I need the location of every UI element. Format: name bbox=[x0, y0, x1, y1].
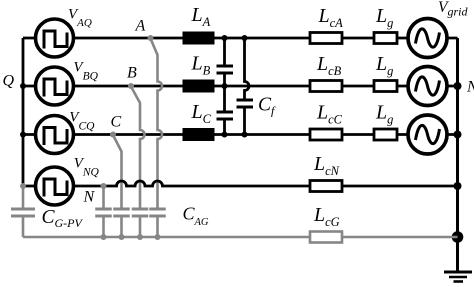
inductor L_g row C bbox=[374, 129, 397, 140]
inductor L_cC bbox=[310, 129, 342, 140]
source V_grid row A bbox=[408, 19, 447, 58]
junction dots C_f bbox=[222, 35, 248, 138]
junction dot right bus row N bbox=[454, 182, 462, 190]
ground bbox=[444, 272, 472, 282]
svg-text:C: C bbox=[111, 114, 122, 131]
wire row A segments bbox=[23, 37, 458, 40]
node Q junction dot row B bbox=[20, 83, 26, 89]
wire row C segments bbox=[23, 133, 458, 136]
svg-text:A: A bbox=[135, 17, 146, 34]
source V_AQ bbox=[36, 19, 74, 57]
inductor L_A bbox=[183, 32, 215, 45]
capacitor C_G-PV bbox=[11, 186, 35, 237]
capacitor C_AG 1 (N) bbox=[95, 208, 112, 218]
svg-text:Q: Q bbox=[3, 73, 15, 90]
wire row B segments bbox=[23, 85, 458, 88]
wire C_f vertical 1 bbox=[223, 38, 226, 135]
node A dot bbox=[148, 35, 154, 41]
node B dot bbox=[128, 83, 134, 89]
capacitor C_f A-B bbox=[217, 65, 234, 75]
node N dot on row N bbox=[101, 183, 107, 189]
junction dot right bus row B bbox=[454, 82, 462, 90]
wire gray ground bus bbox=[23, 236, 458, 239]
capacitor C_AG 4 (A) bbox=[149, 208, 166, 218]
capacitor C_AG 2 (C) bbox=[113, 208, 130, 218]
wire C_f vertical 2 with hop over row B bbox=[245, 38, 250, 135]
wire gray drop from A bbox=[151, 39, 163, 208]
wire row N with hops over gray drops bbox=[23, 181, 458, 186]
inductor L_g row B bbox=[374, 81, 397, 92]
wire gray drop from C bbox=[113, 135, 122, 208]
junction dot right bus row C bbox=[454, 131, 462, 139]
node Q-N gray dot on left bus bbox=[20, 183, 26, 189]
source V_NQ bbox=[36, 167, 74, 205]
wire left bus Q bbox=[22, 38, 25, 186]
wire gray drop from B bbox=[131, 87, 145, 208]
inductor L_cA bbox=[310, 33, 342, 44]
source V_CQ bbox=[36, 116, 74, 154]
wire right bus bbox=[456, 38, 459, 272]
capacitor C_f B-C bbox=[217, 111, 234, 121]
inductor L_cB bbox=[310, 81, 342, 92]
inductor L_cN bbox=[310, 181, 342, 192]
capacitor C_f A-C bbox=[237, 99, 254, 109]
wire gray drop from N bbox=[102, 186, 105, 208]
node C dot bbox=[110, 132, 116, 138]
source V_grid row B bbox=[408, 67, 447, 106]
source V_grid row C bbox=[408, 115, 447, 154]
junction dots gray bus bbox=[101, 234, 161, 240]
svg-text:B: B bbox=[127, 65, 137, 82]
junction dot right bus row G (large) bbox=[452, 231, 464, 243]
svg-text:N: N bbox=[466, 79, 474, 96]
inductor L_g row A bbox=[374, 33, 397, 44]
source V_BQ bbox=[36, 67, 74, 105]
svg-text:N: N bbox=[83, 189, 96, 206]
capacitor C_AG 3 (B) bbox=[132, 208, 149, 218]
inductor L_B bbox=[183, 80, 215, 93]
inductor L_C bbox=[183, 128, 215, 141]
inductor L_cG bbox=[310, 232, 342, 243]
node Q junction dot row C bbox=[20, 132, 26, 138]
